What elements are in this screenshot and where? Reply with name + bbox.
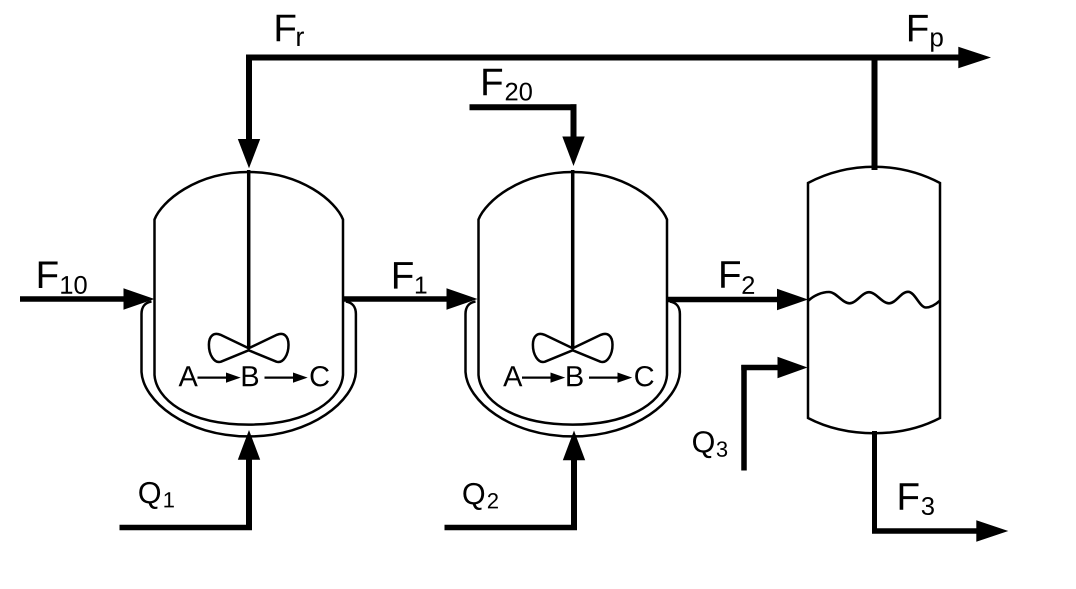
wire F_3 bottoms line xyxy=(872,431,877,534)
label F_2 xyxy=(721,261,740,287)
label F_20 xyxy=(483,69,502,95)
label Q_3 xyxy=(693,431,714,458)
wire F_1 line reactor R1 to R2 xyxy=(343,296,448,302)
reactor R1 impeller xyxy=(209,334,249,362)
label F_10 xyxy=(39,262,58,288)
wire F_2 line reactor R2 to separator xyxy=(667,297,779,303)
separator liquid level wavy line xyxy=(809,292,941,308)
wire F_r recycle vertical drop xyxy=(246,55,252,141)
arrowhead F_r into reactor R1 xyxy=(238,139,260,168)
arrowhead F_1 into reactor R2 xyxy=(447,288,478,309)
wire Q3 into separator xyxy=(741,365,747,471)
arrowhead Q2 into reactor R2 xyxy=(563,431,585,461)
arrowhead Q1 into reactor R1 xyxy=(238,430,260,460)
arrowhead F_3 xyxy=(976,520,1008,541)
arrowhead F_2 into separator xyxy=(777,289,808,310)
reactor R1 reaction arrow B to C xyxy=(265,377,295,379)
arrowhead F_10 into reactor R1 xyxy=(124,288,155,309)
label Q_1 xyxy=(139,482,160,509)
reactor R2 jacket xyxy=(466,302,680,437)
wire F_r recycle horizontal line xyxy=(246,55,959,61)
reactor R2 reaction label C xyxy=(635,366,653,387)
label F_1 xyxy=(394,262,413,288)
reactor R1 vessel xyxy=(155,172,344,425)
label F_r xyxy=(277,15,296,41)
label Q_2 xyxy=(463,483,484,510)
wire F_10 feed line xyxy=(20,296,126,302)
reactor R2 vessel xyxy=(479,172,668,425)
reactor R1 reaction arrow A to B xyxy=(198,377,228,379)
arrowhead Q3 into separator xyxy=(778,357,808,378)
reactor R2 reaction label A xyxy=(503,366,522,386)
arrowhead F_p product xyxy=(958,47,991,68)
reactor R2 impeller xyxy=(533,334,573,362)
label F_3 xyxy=(900,483,919,509)
reactor R2 reaction arrow B to C xyxy=(589,377,619,379)
wire F_20 feed line xyxy=(470,104,577,110)
reactor R2 reaction arrow A to B xyxy=(522,377,552,379)
label F_p xyxy=(909,15,928,41)
reactor R1 jacket xyxy=(142,302,356,437)
wire Q1 heat input xyxy=(120,525,253,531)
reactor R1 reaction label A xyxy=(179,366,198,386)
reactor R2 reaction label B xyxy=(567,366,582,386)
separator vessel xyxy=(808,167,940,433)
reactor R1 reaction label C xyxy=(311,366,329,387)
reactor R1 stirrer shaft xyxy=(247,170,251,350)
reactor R2 stirrer shaft xyxy=(571,170,575,350)
reactor R1 reaction label B xyxy=(243,366,258,386)
wire Q2 heat input xyxy=(445,525,578,531)
separator top pipe to recycle line xyxy=(872,58,878,171)
arrowhead F_20 into reactor R2 xyxy=(562,137,584,167)
